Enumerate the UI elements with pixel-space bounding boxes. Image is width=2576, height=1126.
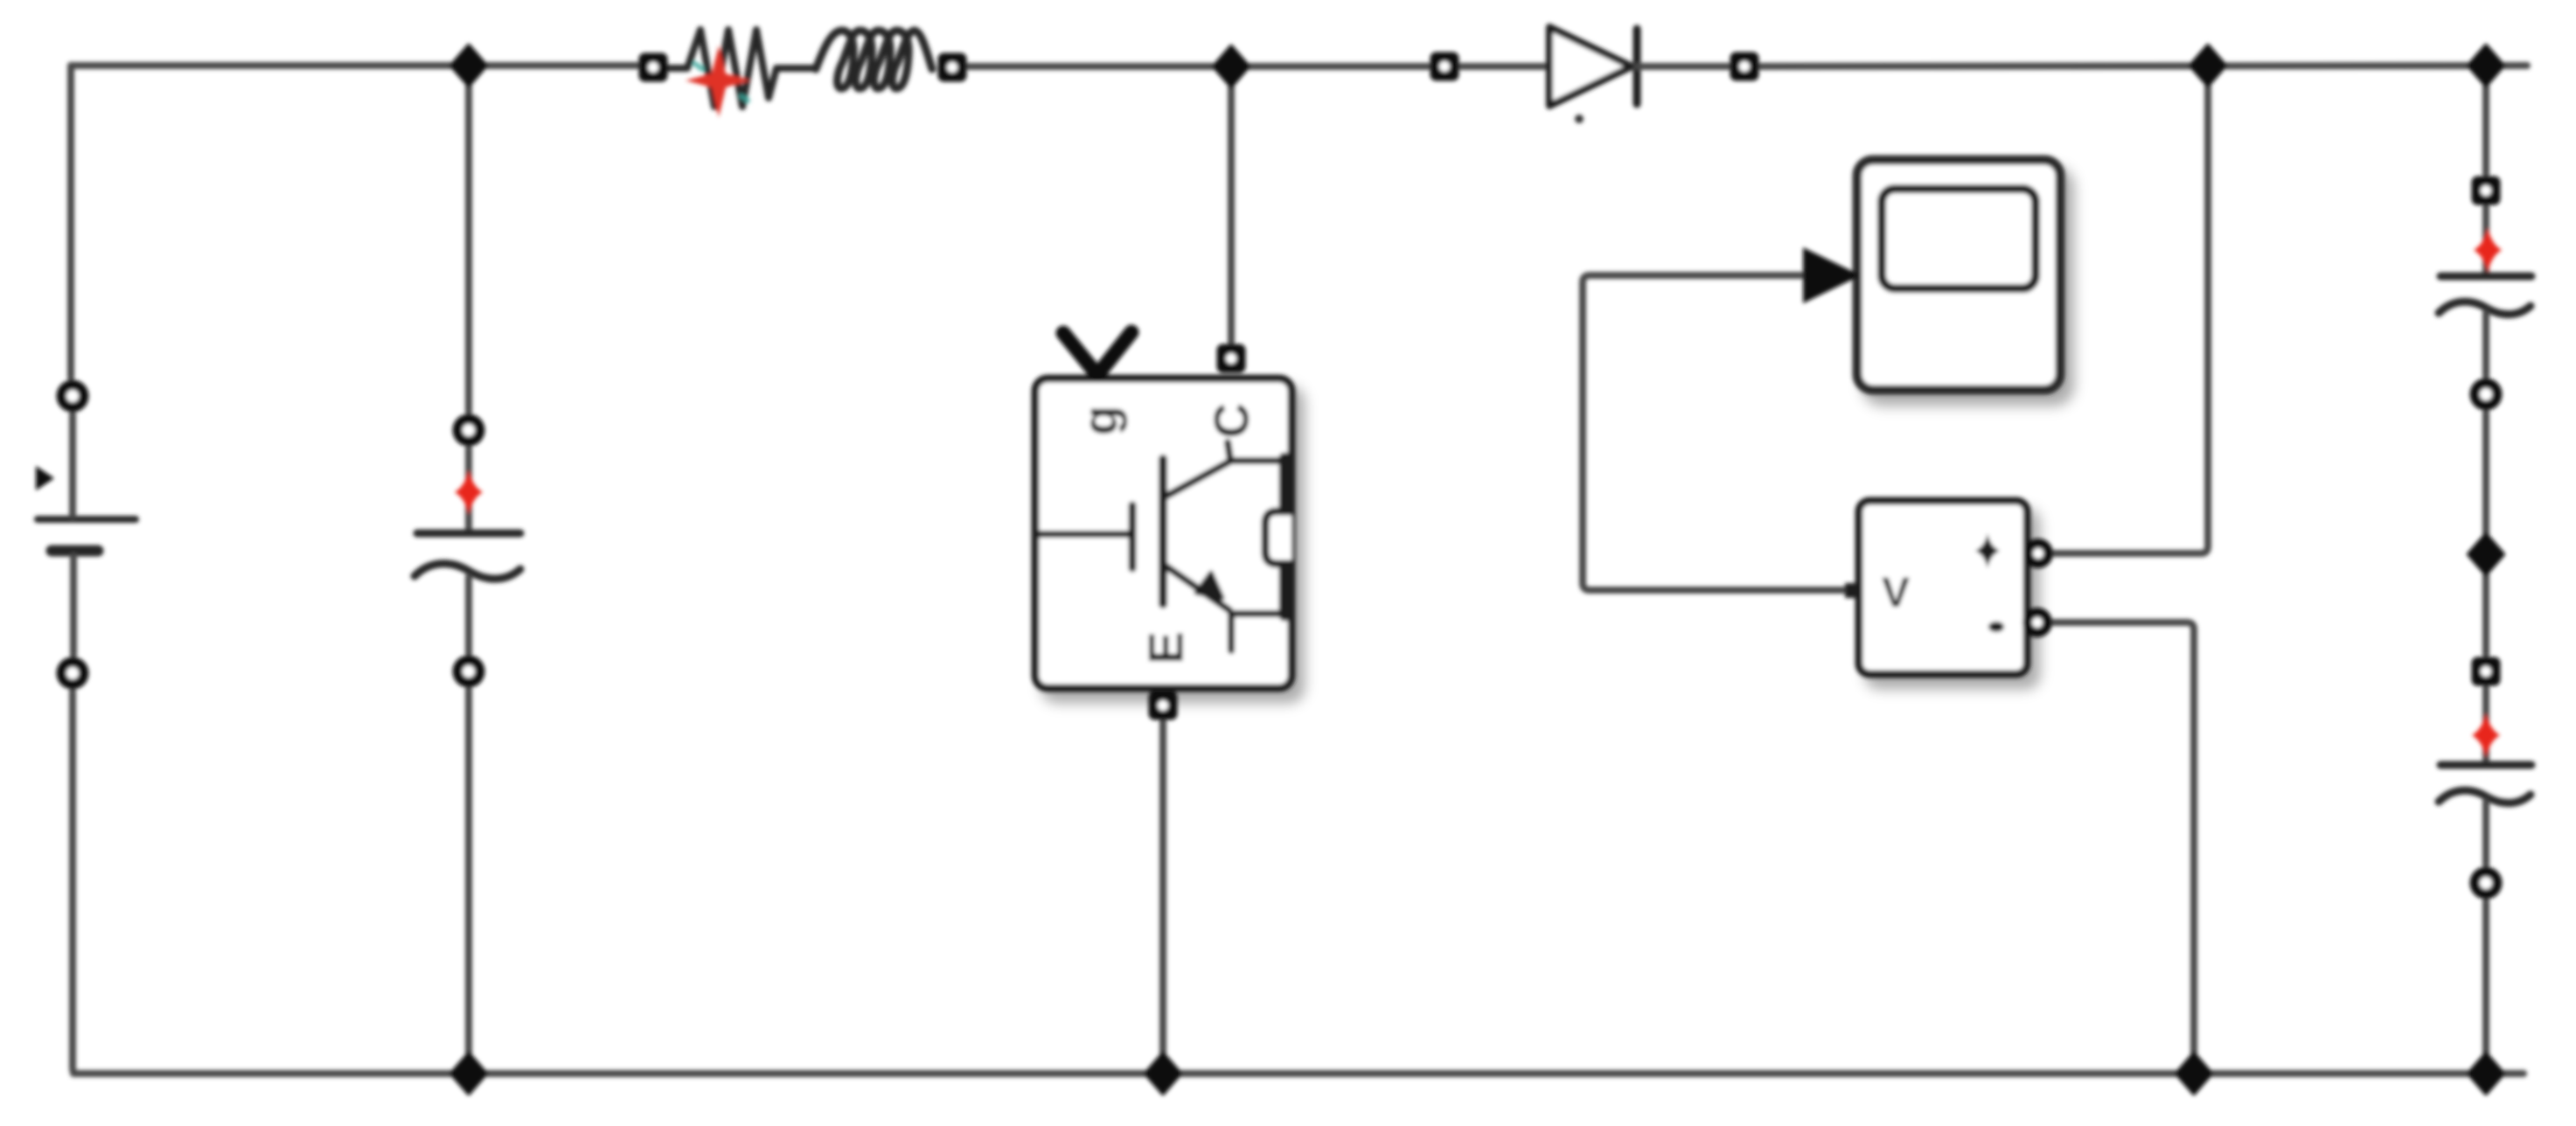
diode D triangle: [1549, 27, 1632, 106]
capacitor C1 stem: [2482, 313, 2489, 376]
DC voltage source E: top terminal port: [57, 380, 89, 413]
wire IGBT collector lead: [1228, 66, 1235, 343]
DC voltage source E: bottom plate: [52, 546, 98, 557]
wire top rail middle segment (inductor to diode): [954, 63, 1443, 70]
port right of diode: [1730, 52, 1759, 81]
capacitor C2 stem: [2482, 802, 2489, 865]
IGBT block body: [1035, 379, 1291, 688]
capacitor C2 top port: [2472, 657, 2501, 686]
port right of RL branch: [938, 53, 967, 82]
capacitor C_in curved plate: [414, 564, 520, 579]
Voltage Measurement minus terminal port: [2023, 608, 2052, 637]
junction node top right corner: [2468, 45, 2503, 86]
Voltage Measurement minus marker: [1988, 622, 2004, 632]
junction node C_in bottom: [451, 1053, 486, 1094]
wire C1 top lead: [2482, 66, 2489, 174]
capacitor C_in bottom port: [453, 656, 485, 688]
teal artifact marks near resistor marker: [695, 64, 748, 101]
diode D cathode lead: [1637, 63, 1730, 70]
IGBT gate bar: [1129, 505, 1137, 568]
junction node at C_in top: [451, 45, 486, 86]
IGBT internal diode notch: [1265, 511, 1291, 564]
wire V plus output to top rail: [2046, 69, 2208, 553]
capacitor C1 red polarity marker: [2474, 227, 2502, 273]
capacitor C_in stem: [465, 577, 472, 653]
junction node above IGBT: [1214, 46, 1249, 87]
Voltage Measurement plus terminal port: [2023, 539, 2053, 568]
capacitor C2 top plate: [2440, 761, 2531, 769]
wire left vertical (source bottom lead to bottom rail): [73, 692, 78, 1074]
Voltage Measurement plus marker: [1975, 533, 2000, 568]
IGBT gate lead line: [1037, 531, 1130, 538]
Scope block body: [1857, 160, 2060, 390]
wire C1 bottom lead to mid junction: [2482, 413, 2489, 554]
wire top rail left segment: [71, 62, 651, 69]
IGBT internal right bus bar: [1279, 458, 1291, 615]
DC voltage source E: plus polarity arrow: [36, 466, 54, 490]
svg-text:C: C: [1204, 403, 1259, 438]
wire measurement loop (V output to Scope input): [1583, 275, 1859, 590]
IGBT collector port: [1217, 344, 1246, 373]
port left of RL branch: [639, 53, 668, 82]
capacitor C1 bottom port: [2470, 379, 2503, 411]
wire C_in top lead: [465, 66, 472, 412]
junction node top rail / V plus: [2190, 45, 2225, 86]
wire mid junction to C2 port: [2482, 554, 2489, 655]
svg-text:g: g: [1073, 406, 1128, 435]
wire C_in bottom lead: [465, 690, 472, 1074]
junction node V minus bottom: [2176, 1053, 2211, 1094]
junction node C2 bottom: [2468, 1053, 2503, 1094]
Scope screen: [1882, 189, 2036, 288]
capacitor C2 bottom port: [2470, 867, 2503, 900]
wire C_in port to plate: [465, 448, 472, 530]
capacitor C_in top port: [453, 414, 485, 447]
inductor L (series RL branch): [816, 31, 932, 88]
svg-text:E: E: [1138, 631, 1194, 664]
red current-measure marker on resistor: [686, 45, 750, 117]
IGBT emitter arrowhead: [1196, 573, 1222, 598]
wire V minus output to bottom rail: [2044, 622, 2194, 1074]
diode label dot: [1575, 115, 1584, 123]
junction node between C1 and C2: [2468, 534, 2503, 574]
IGBT collector internal line: [1166, 442, 1285, 497]
DC voltage source E: top plate: [38, 516, 136, 523]
IGBT emitter port: [1149, 692, 1178, 720]
wire bottom rail: [73, 1070, 2524, 1077]
diode D anode lead: [1445, 63, 1546, 70]
Scope input arrowhead: [1803, 247, 1861, 303]
wire C2 bottom lead: [2482, 901, 2489, 1074]
wire IGBT emitter lead: [1159, 720, 1166, 1074]
capacitor C2 red polarity marker: [2472, 712, 2500, 758]
DC voltage source E: bottom terminal port: [57, 657, 89, 690]
wire top rail right segment (diode to top-right): [1746, 66, 2527, 66]
diode D cathode bar: [1633, 29, 1641, 104]
wire C2 port to plate: [2482, 688, 2489, 761]
wire left vertical (source top lead): [67, 66, 74, 378]
svg-text:V: V: [1882, 570, 1910, 616]
capacitor C2 curved plate: [2439, 790, 2531, 803]
port left of diode: [1431, 52, 1459, 81]
Voltage Measurement block body: [1859, 501, 2027, 674]
resistor R (series RL branch): [669, 30, 816, 107]
capacitor C1 curved plate: [2439, 302, 2531, 315]
Voltage Measurement output signal tick: [1845, 583, 1860, 598]
junction node IGBT emitter bottom: [1145, 1053, 1180, 1094]
DC voltage source E: internal leads: [73, 414, 73, 655]
wire C1 port to plate: [2482, 207, 2489, 273]
IGBT gate input arrow: [1063, 332, 1131, 375]
capacitor C_in top plate: [417, 530, 520, 538]
IGBT emitter internal line: [1166, 566, 1285, 650]
capacitor C1 top plate: [2440, 273, 2531, 281]
capacitor C1 top port: [2472, 177, 2501, 205]
IGBT body bar: [1159, 459, 1167, 604]
capacitor C_in red polarity marker: [455, 469, 483, 515]
